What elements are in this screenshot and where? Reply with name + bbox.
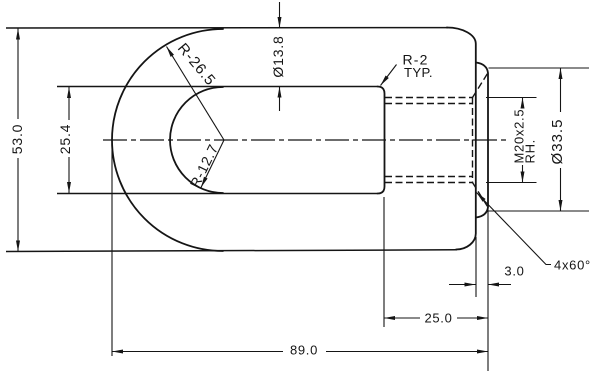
svg-text:4x60°: 4x60° (554, 258, 591, 273)
svg-text:53.0: 53.0 (9, 124, 25, 154)
svg-text:89.0: 89.0 (290, 343, 318, 358)
svg-text:RH.: RH. (523, 139, 538, 164)
svg-text:3.0: 3.0 (504, 264, 524, 279)
svg-text:25.0: 25.0 (424, 311, 452, 326)
svg-text:25.4: 25.4 (57, 124, 73, 154)
svg-text:Ø33.5: Ø33.5 (549, 119, 566, 165)
svg-text:Ø13.8: Ø13.8 (270, 35, 286, 77)
svg-text:TYP.: TYP. (404, 65, 433, 80)
